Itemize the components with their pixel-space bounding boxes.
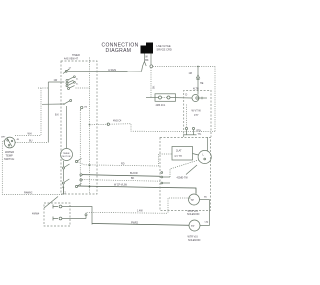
water valve solenoid 2	[189, 220, 210, 231]
terminal ring on plug right leg	[150, 65, 153, 68]
svg-text:1M: 1M	[84, 107, 87, 109]
timer contact 1T	[63, 68, 72, 74]
svg-text:TIMER: TIMER	[63, 153, 70, 155]
svg-text:R4WH2: R4WH2	[24, 191, 33, 194]
svg-text:BK: BK	[131, 177, 135, 180]
lid switch contact 1	[53, 205, 62, 209]
protector contact symbols at relay box bottom	[183, 105, 197, 136]
timer contact 2T	[66, 76, 75, 82]
svg-text:BU: BU	[29, 140, 33, 143]
label TIMER	[64, 54, 80, 60]
svg-text:DIAGRAM: DIAGRAM	[106, 48, 132, 54]
svg-text:SOLENOID: SOLENOID	[188, 239, 201, 242]
wire PWR2 to water valve solenoid 2	[92, 224, 189, 226]
svg-text:1M: 1M	[189, 72, 192, 75]
svg-text:BK: BK	[145, 59, 149, 62]
label W VT W / 4TY under relay	[192, 110, 202, 118]
wire capacitor to motor	[193, 154, 199, 156]
bus wire down right side	[209, 200, 211, 226]
timer contact 5 with junction	[63, 100, 71, 105]
label WTR VLV SOLENOID 1	[187, 210, 200, 216]
wire left column vertical x48	[47, 82, 49, 143]
svg-text:TP: TP	[191, 224, 195, 228]
svg-text:W VT W: W VT W	[192, 110, 202, 113]
svg-text:4LTB: 4LTB	[193, 88, 199, 91]
title CONNECTION DIAGRAM	[102, 42, 139, 53]
wire RD from timer to capacitor	[78, 154, 172, 166]
wire GY dashed to water valve solenoid 1	[86, 212, 168, 214]
svg-text:BU: BU	[204, 197, 207, 199]
wire WT(F)-VLV to water valve 1	[78, 186, 196, 194]
timer contact 5T	[68, 79, 90, 90]
water valve solenoid 1	[189, 194, 200, 205]
wire timer stub y82 to left column	[48, 81, 64, 83]
svg-text:4M3 4C1: 4M3 4C1	[156, 104, 166, 107]
wire right edge vertical down to motor protector	[214, 66, 216, 131]
water temp switch WTS	[1, 137, 20, 148]
svg-text:PTH: PTH	[197, 131, 202, 133]
junction on bus	[89, 164, 91, 166]
svg-text:D: D	[185, 92, 187, 96]
svg-text:RD: RD	[121, 162, 125, 165]
svg-text:4M3 C4: 4M3 C4	[113, 120, 122, 123]
wire dashed to motor box	[82, 180, 160, 182]
svg-text:4AS VEW 4T: 4AS VEW 4T	[64, 57, 79, 60]
wire lid contact1 right and down	[62, 207, 92, 225]
timer right terminal 4	[80, 179, 82, 181]
wire bridge y88	[38, 87, 48, 89]
svg-text:4CME-TW: 4CME-TW	[177, 177, 189, 180]
timer motor TM	[61, 149, 73, 161]
wire from L1 down to relay	[197, 66, 199, 75]
timer terminal 1M	[80, 106, 87, 110]
relay circle	[185, 92, 207, 101]
lid switch dashed box	[44, 203, 70, 226]
svg-text:WATER: WATER	[5, 150, 14, 154]
wire BU from WTS to timer	[15, 142, 48, 144]
timer contact G	[75, 159, 81, 163]
svg-text:DRT: DRT	[1, 137, 6, 139]
wire motor right to protector vertical	[207, 137, 209, 152]
terminal Y on plug left leg	[143, 59, 147, 66]
svg-text:SOLENOID: SOLENOID	[187, 213, 200, 216]
junction terminal	[107, 123, 109, 125]
lid switch contact 2	[53, 217, 62, 221]
wire timer motor bottom	[63, 161, 65, 167]
svg-text:TP: TP	[191, 198, 195, 202]
svg-text:4.3GN: 4.3GN	[108, 68, 116, 72]
svg-text:CA): CA)	[205, 221, 209, 224]
wire GY up into valve 1	[168, 198, 189, 213]
wire contact2 down to lid wire	[63, 188, 65, 195]
timer contact H	[75, 184, 90, 188]
svg-text:HE: HE	[200, 82, 204, 85]
svg-text:PWR2: PWR2	[131, 221, 139, 224]
wire 4.3GN from timer to cord terminal	[68, 66, 143, 72]
timer contact below motor	[63, 164, 70, 181]
drive motor M	[198, 150, 211, 163]
wire WH from WTS to timer	[15, 135, 41, 137]
svg-text:4TY: 4TY	[194, 114, 199, 117]
junction symbol	[85, 214, 87, 219]
label LINE VOLTAGE SERVICE CORD	[157, 44, 172, 51]
wire timer motor top	[66, 106, 68, 148]
wire neutral dashed down from cord ring to lid/door switch box	[150, 68, 152, 98]
timer contact 3T	[66, 80, 74, 84]
door switch box S2	[146, 94, 176, 102]
timer contact 4T	[66, 81, 75, 86]
wire GN/WH2 from WTS left down and along bottom	[2, 141, 63, 195]
svg-text:1.4W: 1.4W	[137, 209, 143, 212]
timer internal bus wire (right side vertical)	[89, 58, 91, 195]
wire left column vertical x41 dashed	[40, 88, 42, 135]
drive motor dashed box	[160, 138, 211, 211]
timer box (dashed)	[61, 61, 97, 194]
svg-text:MOTOR: MOTOR	[62, 156, 71, 158]
wire continues to right edge	[110, 124, 216, 132]
label WH BK between plug legs	[145, 56, 149, 63]
motor box left terminals	[161, 160, 199, 184]
start capacitor box	[172, 147, 193, 161]
thermal protector symbol	[196, 66, 199, 95]
svg-text:B.K: B.K	[55, 114, 59, 117]
svg-text:2LAT: 2LAT	[176, 150, 182, 153]
label WATER TEMP SWITCH	[4, 150, 14, 161]
line voltage service cord plug P1	[141, 43, 154, 65]
svg-text:WH: WH	[28, 133, 32, 136]
svg-text:GY TH: GY TH	[175, 155, 182, 158]
motor start relay dashed box	[184, 90, 211, 137]
timer right terminal 2	[80, 174, 82, 176]
svg-text:BK: BK	[153, 85, 156, 89]
svg-text:TH-: TH-	[198, 134, 202, 136]
svg-text:BU/OR: BU/OR	[130, 172, 138, 175]
wire y104 into timer	[42, 103, 64, 105]
wire lid contact2 right	[62, 218, 86, 220]
svg-text:TEMP: TEMP	[6, 154, 13, 158]
svg-text:W CF-VL)W: W CF-VL)W	[114, 183, 128, 186]
wire BU/OR to motor box	[82, 175, 160, 177]
timer contact 2 bottom	[62, 179, 69, 195]
wire L1 dashed from cord to right edge	[153, 65, 215, 67]
lid switch lever diagonal	[44, 197, 58, 209]
lid switch wire junction up to timer	[63, 188, 65, 195]
svg-text:4WW4: 4WW4	[32, 213, 40, 216]
wire valve1 right to bus	[200, 199, 210, 201]
svg-text:SWITCH: SWITCH	[4, 157, 14, 161]
svg-text:SRVCE CRD: SRVCE CRD	[157, 47, 172, 51]
label WTR VLV SOLENOID 2	[188, 236, 201, 242]
wire door switch to relay box	[170, 97, 192, 100]
motor start winding diagonal	[186, 165, 197, 175]
timer internal bus wire 2	[79, 110, 81, 187]
wire BK/RD from timer right to motor protector	[89, 124, 91, 126]
